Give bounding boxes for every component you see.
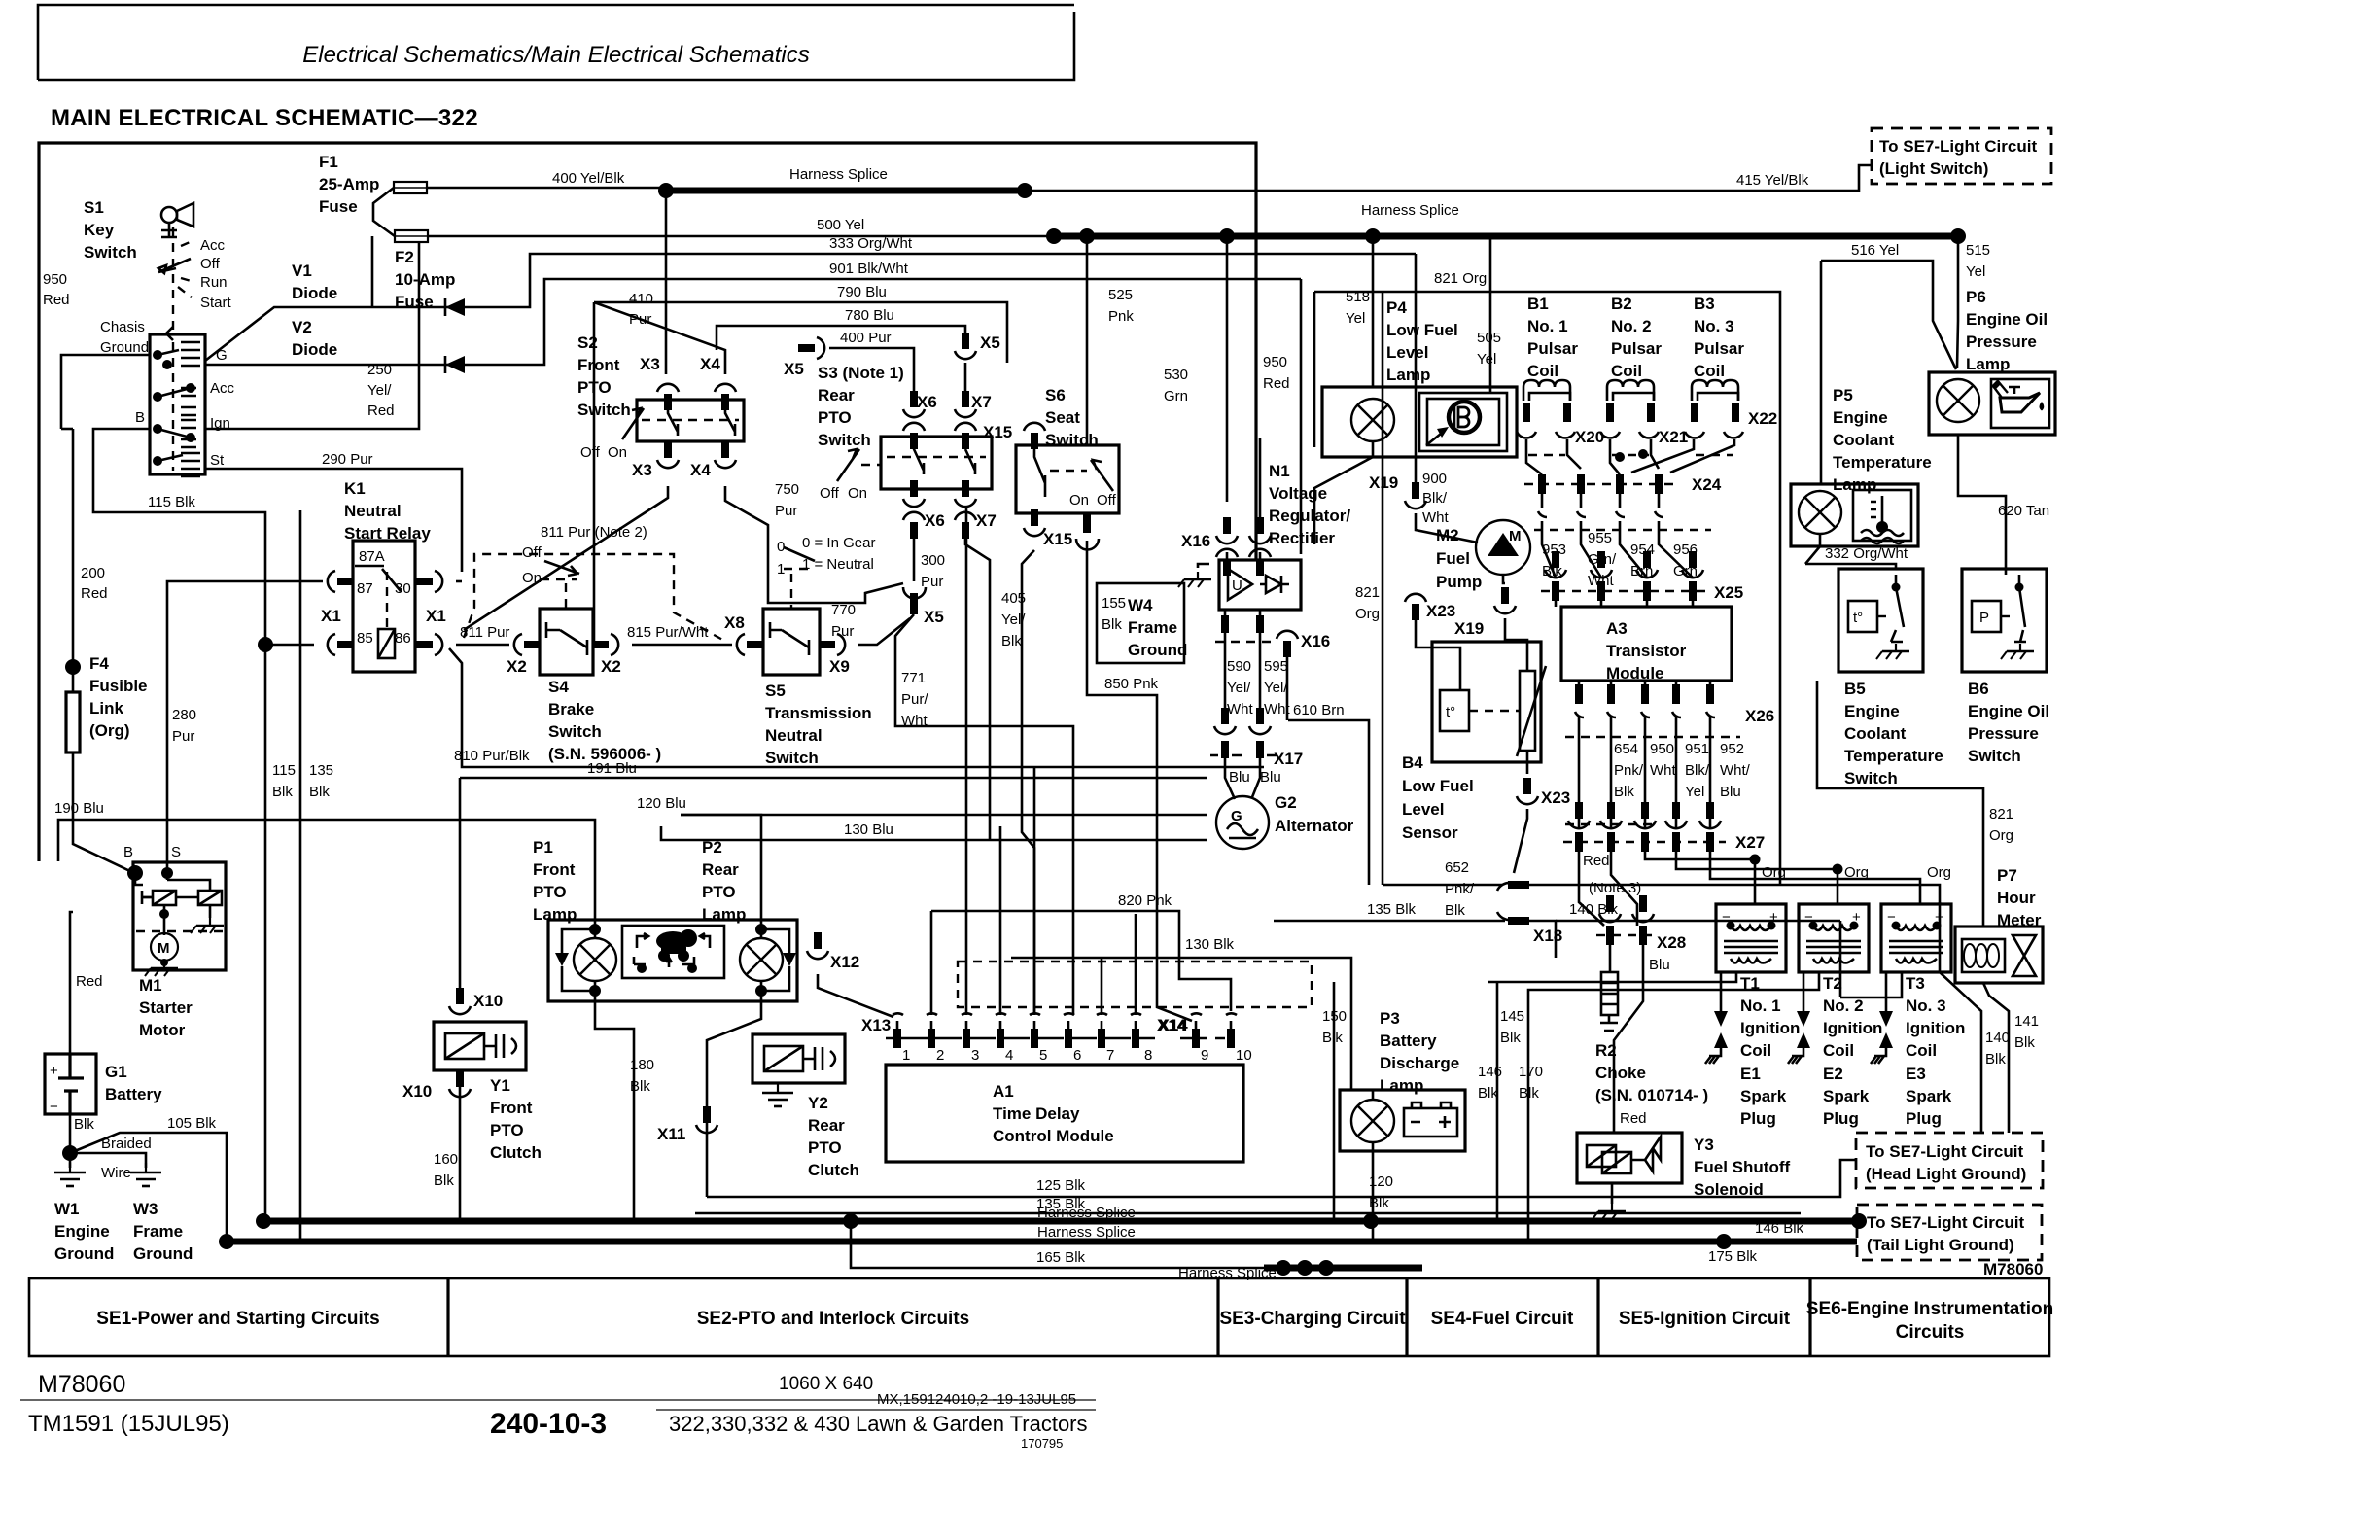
svg-text:290 Pur: 290 Pur [322, 451, 373, 468]
svg-text:Switch: Switch [765, 749, 819, 767]
svg-text:V1: V1 [292, 262, 312, 280]
svg-text:Harness Splice: Harness Splice [1178, 1265, 1277, 1281]
svg-text:Rear: Rear [818, 386, 855, 404]
svg-text:7: 7 [1106, 1047, 1114, 1064]
svg-text:F1: F1 [319, 153, 338, 171]
svg-text:410: 410 [629, 291, 653, 307]
svg-text:No. 3: No. 3 [1694, 317, 1734, 335]
svg-text:Y3: Y3 [1694, 1136, 1714, 1154]
svg-text:810 Pur/Blk: 810 Pur/Blk [454, 748, 530, 764]
svg-text:Pur: Pur [921, 574, 943, 590]
svg-text:A3: A3 [1606, 619, 1627, 638]
svg-text:135 Blk: 135 Blk [1367, 901, 1417, 918]
svg-text:280: 280 [172, 707, 196, 723]
riser wires to A1 [931, 506, 1136, 1015]
svg-text:(Tail Light Ground): (Tail Light Ground) [1867, 1236, 2014, 1254]
svg-text:950: 950 [43, 271, 67, 288]
wire St 290 Pur [205, 469, 462, 572]
svg-text:P: P [1979, 610, 1989, 626]
svg-text:B4: B4 [1402, 753, 1423, 772]
svg-text:P6: P6 [1966, 288, 1986, 306]
svg-text:5: 5 [1039, 1047, 1047, 1064]
B5 engine coolant temperature switch [1838, 569, 1923, 672]
svg-text:To SE7-Light Circuit: To SE7-Light Circuit [1867, 1213, 2024, 1232]
svg-text:Sensor: Sensor [1402, 823, 1458, 842]
svg-text:87: 87 [357, 580, 373, 597]
svg-text:B: B [123, 844, 133, 860]
svg-text:Red: Red [1263, 375, 1290, 392]
svg-text:(Light Switch): (Light Switch) [1879, 159, 1988, 178]
svg-text:Wht: Wht [1650, 762, 1677, 779]
svg-text:Clutch: Clutch [490, 1143, 542, 1162]
svg-text:525: 525 [1108, 287, 1133, 303]
To SE7 light switch dashed box [1872, 128, 2051, 184]
svg-text:On: On [608, 444, 627, 461]
svg-text:X1: X1 [426, 607, 446, 625]
svg-text:Start: Start [200, 295, 232, 311]
svg-text:Lamp: Lamp [1966, 355, 2010, 373]
svg-text:901 Blk/Wht: 901 Blk/Wht [829, 261, 909, 277]
svg-text:G1: G1 [105, 1063, 127, 1081]
svg-text:S5: S5 [765, 682, 786, 700]
svg-text:S1: S1 [84, 198, 104, 217]
svg-text:Pulsar: Pulsar [1611, 339, 1662, 358]
svg-text:X15: X15 [983, 423, 1012, 441]
svg-text:X22: X22 [1748, 409, 1777, 428]
svg-text:516 Yel: 516 Yel [1851, 242, 1899, 259]
svg-text:Module: Module [1606, 664, 1664, 682]
svg-text:Yel: Yel [1685, 784, 1704, 800]
svg-text:Engine: Engine [54, 1222, 110, 1241]
svg-text:Coolant: Coolant [1833, 431, 1895, 449]
svg-text:X12: X12 [830, 953, 859, 971]
svg-text:St: St [210, 452, 225, 469]
svg-text:Coil: Coil [1527, 362, 1558, 380]
wire 525 Pnk from 500 Yel down to S6 [1086, 236, 1089, 445]
svg-text:X14: X14 [1157, 1016, 1187, 1034]
svg-text:Blu: Blu [1649, 957, 1670, 973]
svg-text:X27: X27 [1735, 833, 1765, 852]
svg-text:Fuel: Fuel [1436, 549, 1470, 568]
svg-text:SE1-Power and Starting Circuit: SE1-Power and Starting Circuits [96, 1309, 379, 1329]
svg-text:X4: X4 [700, 355, 720, 373]
svg-text:Blk: Blk [1322, 1030, 1343, 1046]
svg-text:Switch: Switch [577, 401, 631, 419]
wire G to V2 line [205, 279, 1301, 365]
wire 500 Yel [428, 235, 1054, 238]
svg-text:B: B [135, 409, 145, 426]
wire 780 Blu [717, 326, 965, 350]
svg-text:Yel/: Yel/ [1227, 680, 1251, 696]
svg-text:180: 180 [630, 1057, 654, 1073]
svg-text:Pur/: Pur/ [901, 691, 928, 708]
svg-text:250: 250 [367, 362, 392, 378]
svg-text:To SE7-Light Circuit: To SE7-Light Circuit [1866, 1142, 2023, 1161]
svg-text:815 Pur/Wht: 815 Pur/Wht [627, 624, 709, 641]
svg-text:Acc: Acc [210, 380, 235, 397]
svg-text:Wht: Wht [1264, 701, 1291, 717]
svg-text:Control Module: Control Module [993, 1127, 1114, 1145]
svg-text:Starter: Starter [139, 998, 192, 1017]
R2 choke [1601, 972, 1618, 1015]
key switch dashed stem [172, 227, 174, 471]
svg-text:85: 85 [357, 630, 373, 647]
svg-text:Coil: Coil [1694, 362, 1725, 380]
svg-text:Ignition: Ignition [1823, 1019, 1882, 1037]
svg-text:415 Yel/Blk: 415 Yel/Blk [1736, 172, 1809, 189]
svg-text:8: 8 [1144, 1047, 1152, 1064]
svg-text:Front: Front [490, 1099, 533, 1117]
svg-text:X4: X4 [690, 461, 711, 479]
X12 connector [807, 932, 828, 959]
svg-text:Switch: Switch [1968, 747, 2021, 765]
svg-text:770: 770 [831, 602, 856, 618]
svg-text:Ignition: Ignition [1906, 1019, 1965, 1037]
svg-text:Acc: Acc [200, 237, 226, 254]
svg-text:X10: X10 [402, 1082, 432, 1101]
svg-text:SE6-Engine Instrumentation: SE6-Engine Instrumentation [1806, 1299, 2053, 1319]
mid horizontals [449, 648, 1264, 767]
svg-text:Engine: Engine [1833, 408, 1888, 427]
svg-text:750: 750 [775, 481, 799, 498]
svg-text:130 Blu: 130 Blu [844, 822, 893, 838]
svg-text:X20: X20 [1575, 428, 1604, 446]
svg-text:Red: Red [43, 292, 70, 308]
svg-text:W3: W3 [133, 1200, 158, 1218]
svg-text:Org: Org [1927, 864, 1951, 881]
wire 280 Pur (S terminal) [167, 581, 323, 873]
svg-text:115: 115 [272, 762, 296, 779]
contacts inside: G, Acc, Ign, St [181, 342, 200, 476]
svg-text:1060 X 640: 1060 X 640 [779, 1374, 873, 1394]
svg-text:Brake: Brake [548, 700, 594, 718]
svg-text:Temperature: Temperature [1833, 453, 1932, 472]
svg-text:Yel/: Yel/ [1001, 612, 1026, 628]
svg-text:S6: S6 [1045, 386, 1066, 404]
svg-text:X10: X10 [473, 992, 503, 1010]
svg-text:951: 951 [1685, 741, 1709, 757]
svg-text:400 Yel/Blk: 400 Yel/Blk [552, 170, 625, 187]
svg-text:1: 1 [902, 1047, 910, 1064]
svg-text:B1: B1 [1527, 295, 1549, 313]
svg-text:Coolant: Coolant [1844, 724, 1907, 743]
svg-text:PTO: PTO [533, 883, 567, 901]
svg-text:333 Org/Wht: 333 Org/Wht [829, 235, 913, 252]
wires above P1 P2 [58, 820, 595, 920]
svg-text:P4: P4 [1386, 298, 1407, 317]
svg-text:Solenoid: Solenoid [1694, 1180, 1764, 1199]
svg-text:B2: B2 [1611, 295, 1632, 313]
svg-text:590: 590 [1227, 658, 1251, 675]
S5 transmission neutral switch [763, 609, 820, 675]
header box [38, 5, 1074, 80]
svg-text:Blk: Blk [1369, 1195, 1389, 1211]
svg-text:Clutch: Clutch [808, 1161, 859, 1179]
svg-text:X11: X11 [657, 1125, 685, 1143]
svg-text:Blu: Blu [1260, 769, 1281, 786]
svg-text:Discharge: Discharge [1380, 1054, 1459, 1072]
wire X15-2 vertical 405 [1083, 513, 1091, 533]
svg-text:1 = Neutral: 1 = Neutral [802, 556, 874, 573]
svg-text:86: 86 [395, 630, 411, 647]
svg-text:Link: Link [89, 699, 123, 717]
svg-text:On: On [1069, 492, 1089, 508]
svg-text:Blk: Blk [1478, 1085, 1498, 1102]
svg-text:771: 771 [901, 670, 926, 686]
svg-text:X3: X3 [640, 355, 660, 373]
svg-text:MAIN ELECTRICAL SCHEMATIC—322: MAIN ELECTRICAL SCHEMATIC—322 [51, 105, 478, 131]
svg-text:F2: F2 [395, 248, 414, 266]
enclosing box around ignition section [1314, 292, 1780, 885]
svg-text:820 Pnk: 820 Pnk [1118, 892, 1172, 909]
svg-text:X2: X2 [507, 657, 527, 676]
svg-text:X16: X16 [1301, 632, 1330, 650]
svg-text:X1: X1 [321, 607, 341, 625]
svg-text:Pressure: Pressure [1966, 332, 2037, 351]
svg-text:Coil: Coil [1823, 1041, 1854, 1060]
svg-text:Plug: Plug [1823, 1109, 1859, 1128]
svg-text:Choke: Choke [1595, 1064, 1646, 1082]
svg-text:Front: Front [533, 860, 576, 879]
svg-text:Rear: Rear [702, 860, 739, 879]
svg-text:200: 200 [81, 565, 105, 581]
E1-E3 spark plugs [1705, 972, 1728, 1064]
svg-text:Wht/: Wht/ [1720, 762, 1751, 779]
wires below S3 [913, 537, 916, 581]
svg-text:Level: Level [1386, 343, 1428, 362]
svg-text:Transmission: Transmission [765, 704, 872, 722]
svg-text:191 Blu: 191 Blu [587, 760, 637, 777]
svg-text:Hour: Hour [1997, 889, 2036, 907]
svg-text:X17: X17 [1274, 750, 1303, 768]
svg-text:Pur: Pur [172, 728, 194, 745]
svg-text:175 Blk: 175 Blk [1708, 1248, 1758, 1265]
wire below S6: 135 Blk path [1022, 550, 1034, 1015]
svg-text:X21: X21 [1659, 428, 1688, 446]
svg-text:t°: t° [1446, 704, 1455, 720]
svg-text:115 Blk: 115 Blk [148, 494, 195, 510]
svg-text:Org: Org [1355, 606, 1380, 622]
610 Brn [1288, 720, 1369, 885]
svg-text:146: 146 [1478, 1064, 1502, 1080]
svg-text:165 Blk: 165 Blk [1036, 1249, 1086, 1266]
svg-text:Ground: Ground [1128, 641, 1187, 659]
svg-text:Coil: Coil [1611, 362, 1642, 380]
svg-text:Yel: Yel [1346, 310, 1365, 327]
svg-text:Grn: Grn [1164, 388, 1188, 404]
svg-text:No. 2: No. 2 [1823, 997, 1864, 1015]
105 Blk wire [70, 1133, 227, 1242]
X27 row [1575, 832, 1714, 852]
svg-text:E2: E2 [1823, 1065, 1843, 1083]
svg-text:0 = In Gear: 0 = In Gear [802, 535, 875, 551]
svg-text:X15: X15 [1043, 530, 1072, 548]
A3 bottom pins / X26 [1575, 684, 1714, 704]
M1 starter motor [133, 862, 226, 970]
svg-text:Engine: Engine [1844, 702, 1900, 720]
svg-text:On: On [848, 485, 867, 502]
svg-text:0: 0 [777, 539, 785, 555]
svg-text:Key: Key [84, 221, 115, 239]
wire B down left [93, 429, 265, 1221]
svg-text:Frame: Frame [133, 1222, 183, 1241]
svg-text:Blk: Blk [1519, 1085, 1539, 1102]
svg-text:X5: X5 [980, 333, 1000, 352]
svg-text:Lamp: Lamp [1386, 366, 1430, 384]
svg-text:X7: X7 [971, 393, 992, 411]
wires under pulsar coils to X24 [1528, 454, 1732, 456]
svg-text:6: 6 [1073, 1047, 1081, 1064]
svg-text:X9: X9 [829, 657, 850, 676]
svg-text:780 Blu: 780 Blu [845, 307, 894, 324]
svg-text:322,330,332 & 430 Lawn & Garde: 322,330,332 & 430 Lawn & Garden Tractors [669, 1412, 1088, 1436]
svg-text:850 Pnk: 850 Pnk [1104, 676, 1159, 692]
svg-text:Lamp: Lamp [702, 905, 746, 924]
W4 frame ground [1097, 583, 1184, 663]
svg-text:170795: 170795 [1021, 1436, 1063, 1451]
svg-text:3: 3 [971, 1047, 979, 1064]
svg-text:190 Blu: 190 Blu [54, 800, 104, 817]
svg-text:PTO: PTO [808, 1138, 842, 1157]
svg-text:SE2-PTO and Interlock Circuits: SE2-PTO and Interlock Circuits [697, 1309, 970, 1329]
svg-text:120: 120 [1369, 1173, 1393, 1190]
svg-text:Coil: Coil [1906, 1041, 1937, 1060]
svg-text:Wht: Wht [1227, 701, 1254, 717]
X25 row [1552, 581, 1697, 601]
svg-text:Time Delay: Time Delay [993, 1104, 1080, 1123]
svg-text:240-10-3: 240-10-3 [490, 1408, 607, 1440]
svg-text:Blk: Blk [434, 1172, 454, 1189]
svg-text:610 Brn: 610 Brn [1293, 702, 1345, 718]
svg-text:Level: Level [1402, 800, 1444, 819]
svg-text:Red: Red [1620, 1110, 1647, 1127]
T1 T2 T3 ignition coils [1716, 904, 1786, 972]
A1 time delay control module [886, 1065, 1243, 1162]
svg-text:2: 2 [936, 1047, 944, 1064]
svg-text:S4: S4 [548, 678, 569, 696]
svg-text:25-Amp: 25-Amp [319, 175, 379, 193]
svg-text:No. 2: No. 2 [1611, 317, 1652, 335]
svg-text:Diode: Diode [292, 340, 337, 359]
wire G diagonal up to V1 line [205, 254, 1416, 361]
svg-text:Pressure: Pressure [1968, 724, 2039, 743]
svg-text:X2: X2 [601, 657, 621, 676]
svg-text:B6: B6 [1968, 680, 1989, 698]
svg-text:Pnk/: Pnk/ [1614, 762, 1644, 779]
svg-text:Pnk: Pnk [1108, 308, 1134, 325]
svg-text:405: 405 [1001, 590, 1026, 607]
svg-text:10: 10 [1236, 1047, 1252, 1064]
svg-text:B5: B5 [1844, 680, 1866, 698]
svg-text:Battery: Battery [105, 1085, 162, 1103]
svg-text:Pulsar: Pulsar [1694, 339, 1744, 358]
svg-text:900: 900 [1422, 471, 1447, 487]
svg-text:Harness Splice: Harness Splice [1037, 1224, 1136, 1241]
svg-text:P7: P7 [1997, 866, 2017, 885]
S4 brake switch [540, 609, 593, 675]
svg-text:P1: P1 [533, 838, 553, 857]
svg-text:U: U [1232, 577, 1242, 594]
svg-text:Off: Off [580, 444, 601, 461]
svg-text:PTO: PTO [702, 883, 736, 901]
svg-text:Front: Front [577, 356, 620, 374]
svg-text:On: On [522, 570, 542, 586]
svg-text:Low Fuel: Low Fuel [1402, 777, 1474, 795]
section bar [29, 1278, 2053, 1356]
svg-text:M: M [157, 940, 170, 957]
Y2 rear PTO clutch [752, 1034, 845, 1083]
svg-text:X23: X23 [1426, 602, 1455, 620]
svg-text:950: 950 [1263, 354, 1287, 370]
svg-text:X8: X8 [724, 613, 745, 632]
To SE7 head light ground [1856, 1133, 2043, 1188]
svg-text:Harness Splice: Harness Splice [789, 166, 888, 183]
svg-text:Y2: Y2 [808, 1094, 828, 1112]
svg-text:Ground: Ground [54, 1244, 114, 1263]
svg-text:No. 3: No. 3 [1906, 997, 1946, 1015]
svg-text:Ignition: Ignition [1740, 1019, 1800, 1037]
wire 815 Pur/Wht [632, 644, 732, 647]
svg-text:Neutral: Neutral [344, 502, 402, 520]
svg-text:SE5-Ignition Circuit: SE5-Ignition Circuit [1619, 1309, 1791, 1329]
svg-text:Pulsar: Pulsar [1527, 339, 1578, 358]
svg-text:620 Tan: 620 Tan [1998, 503, 2049, 519]
svg-text:Blk: Blk [74, 1116, 94, 1133]
svg-text:No. 1: No. 1 [1740, 997, 1781, 1015]
svg-text:X16: X16 [1181, 532, 1210, 550]
svg-text:Battery: Battery [1380, 1032, 1437, 1050]
svg-text:332 Org/Wht: 332 Org/Wht [1825, 545, 1908, 562]
svg-text:Rear: Rear [808, 1116, 845, 1135]
wire K1 30 up to 290 Pur [456, 580, 462, 583]
svg-text:Frame: Frame [1128, 618, 1177, 637]
svg-text:N1: N1 [1269, 462, 1290, 480]
svg-text:X18: X18 [1533, 927, 1562, 945]
svg-text:141: 141 [2014, 1013, 2039, 1030]
svg-text:955: 955 [1588, 530, 1612, 546]
dashed 811 Pur (Note 2) [464, 554, 726, 642]
S2 bottom wires [464, 486, 668, 630]
821 Org right vertical to P7 [1817, 681, 1983, 927]
svg-text:Switch: Switch [84, 243, 137, 262]
svg-text:595: 595 [1264, 658, 1288, 675]
svg-text:Blk: Blk [1445, 902, 1465, 919]
svg-text:Chasis: Chasis [100, 319, 145, 335]
svg-text:Wire: Wire [101, 1165, 131, 1181]
N1 bottom pins [1221, 615, 1264, 633]
svg-text:X5: X5 [784, 360, 804, 378]
svg-text:Alternator: Alternator [1275, 817, 1354, 835]
svg-text:(Note 3): (Note 3) [1589, 880, 1641, 896]
svg-text:X23: X23 [1541, 788, 1570, 807]
wire Ign to 250 [205, 236, 419, 429]
svg-text:500 Yel: 500 Yel [817, 217, 864, 233]
svg-text:X5: X5 [924, 608, 944, 626]
svg-text:952: 952 [1720, 741, 1744, 757]
svg-text:515: 515 [1966, 242, 1990, 259]
svg-text:950: 950 [1650, 741, 1674, 757]
wire chassis ground to box [61, 355, 150, 381]
svg-text:120 Blu: 120 Blu [637, 795, 686, 812]
svg-text:Pur: Pur [775, 503, 797, 519]
svg-text:Neutral: Neutral [765, 726, 822, 745]
svg-text:821: 821 [1355, 584, 1380, 601]
svg-text:Org: Org [1989, 827, 2013, 844]
svg-text:P3: P3 [1380, 1009, 1400, 1028]
svg-text:(S.N. 010714- ): (S.N. 010714- ) [1595, 1086, 1708, 1104]
svg-text:Blk: Blk [2014, 1034, 2035, 1051]
svg-text:145: 145 [1500, 1008, 1524, 1025]
